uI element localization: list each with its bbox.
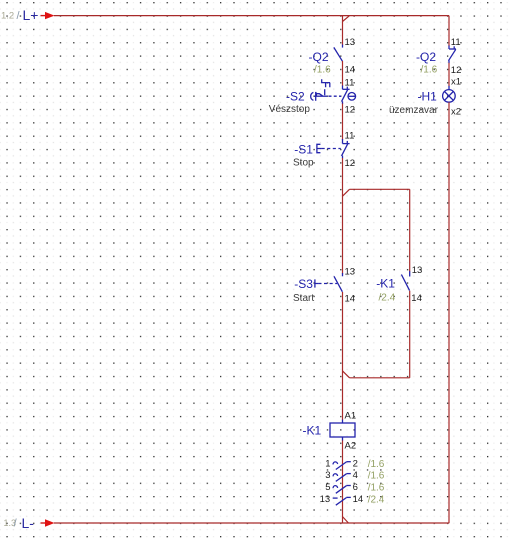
svg-text:14: 14 xyxy=(353,494,364,505)
svg-text:4: 4 xyxy=(353,470,358,481)
svg-text:1.2: 1.2 xyxy=(1,11,14,22)
source arrow L- xyxy=(41,519,55,526)
svg-text:3: 3 xyxy=(325,470,330,481)
wire junction top (left branch tap) xyxy=(343,16,350,22)
svg-text:A2: A2 xyxy=(345,441,357,452)
contact mirror row 5-6 xyxy=(333,486,351,494)
svg-text:L-: L- xyxy=(22,515,35,531)
wire S1 down past branch to S3 xyxy=(342,158,344,274)
svg-text:12: 12 xyxy=(451,65,462,76)
svg-text:Vészstop: Vészstop xyxy=(269,104,311,115)
svg-text:/1.6: /1.6 xyxy=(368,471,385,482)
wire Q2 to H1 xyxy=(448,63,450,86)
svg-text:13: 13 xyxy=(412,265,423,276)
svg-text:L+: L+ xyxy=(23,7,39,23)
svg-text:14: 14 xyxy=(345,64,356,75)
svg-text:11: 11 xyxy=(451,37,461,48)
wire coil to bottom rail xyxy=(342,440,344,523)
wire Q2 to S2 xyxy=(342,61,344,86)
svg-text:/1.6: /1.6 xyxy=(368,459,385,470)
svg-text:/2.4: /2.4 xyxy=(368,495,385,506)
wire self-hold branch vertical lower xyxy=(409,291,411,378)
svg-text:6: 6 xyxy=(353,482,358,493)
svg-text:üzemzavar: üzemzavar xyxy=(389,105,439,116)
wire junction bottom (to rail) xyxy=(343,517,349,523)
svg-text:Start: Start xyxy=(293,293,314,304)
svg-text:13: 13 xyxy=(345,267,356,278)
contactor NC contact -Q2 11/12 xyxy=(449,46,457,64)
net label L+ (1.2 / L+) xyxy=(1,7,38,23)
svg-text:-Q2: -Q2 xyxy=(309,50,329,64)
wire S2 to S1 xyxy=(342,104,344,141)
svg-text:11: 11 xyxy=(345,77,355,88)
stop button -S1 11/12 (NC pushbutton) xyxy=(317,139,350,158)
start button -S3 13/14 (NO pushbutton) xyxy=(315,273,343,292)
wire junction from self-hold branch (bottom) xyxy=(343,371,410,378)
wire junction to self-hold branch (top) xyxy=(343,189,410,196)
self-hold contact -K1 13/14 xyxy=(401,271,409,290)
svg-text:14: 14 xyxy=(411,293,422,304)
svg-text:-Q2: -Q2 xyxy=(416,50,436,64)
svg-text:-S2: -S2 xyxy=(286,90,305,104)
svg-text:/1.6: /1.6 xyxy=(314,64,331,75)
wire H1 to bottom rail xyxy=(448,102,450,523)
wire S3 to coil K1 xyxy=(342,292,344,420)
svg-text:A1: A1 xyxy=(345,411,357,422)
svg-text:-K1: -K1 xyxy=(376,276,395,290)
svg-text:/1.6: /1.6 xyxy=(421,64,438,75)
svg-text:11: 11 xyxy=(345,131,355,142)
svg-text:14: 14 xyxy=(345,293,356,304)
svg-text:13: 13 xyxy=(320,494,331,505)
contactor aux contact -Q2 13/14 xyxy=(334,45,343,62)
coil -K1 A1/A2 xyxy=(330,420,355,441)
source arrow L+ xyxy=(41,12,55,19)
emergency stop switch -S2 11/12 (NC, mushroom head, turn release) xyxy=(311,79,356,104)
svg-text:x1: x1 xyxy=(451,77,461,88)
indicator lamp -H1 xyxy=(443,86,456,102)
wire bottom rail L- xyxy=(54,522,449,524)
svg-text:-H1: -H1 xyxy=(418,90,438,104)
svg-text:12: 12 xyxy=(345,158,356,169)
svg-text:2: 2 xyxy=(353,458,358,469)
contact mirror row 13-14 xyxy=(333,497,351,505)
svg-text:Stop: Stop xyxy=(293,157,314,168)
contact mirror row 3-4 xyxy=(333,474,351,482)
wire left branch: rail to Q2 xyxy=(342,16,344,45)
svg-text:-S1: -S1 xyxy=(294,143,313,157)
svg-text:1: 1 xyxy=(325,458,330,469)
svg-text:12: 12 xyxy=(345,105,356,116)
svg-text:/1.6: /1.6 xyxy=(368,483,385,494)
wire self-hold branch vertical upper xyxy=(409,189,411,271)
wire top rail L+ xyxy=(54,15,449,17)
svg-text:5: 5 xyxy=(325,482,330,493)
svg-text:-K1: -K1 xyxy=(303,424,322,438)
net label L- (1.3 / L-) xyxy=(4,515,35,531)
svg-text:-S3: -S3 xyxy=(294,277,313,291)
wire right branch: rail to Q2 NC xyxy=(448,16,450,46)
svg-text:13: 13 xyxy=(345,37,356,48)
svg-text:x2: x2 xyxy=(451,106,461,117)
svg-text:/2.4: /2.4 xyxy=(379,292,396,303)
contact mirror row 1-2 xyxy=(333,462,351,470)
